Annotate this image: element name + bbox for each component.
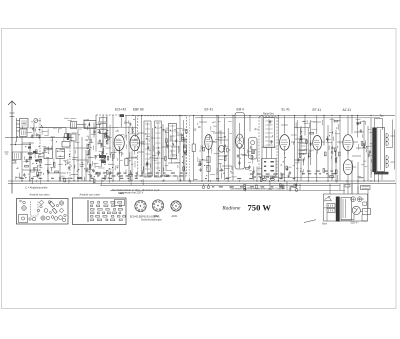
svg-text:Sockelschaltungen: Sockelschaltungen xyxy=(141,218,163,221)
antenna coil box L2a xyxy=(20,119,29,129)
wire HT top bus xyxy=(125,115,395,117)
tube V3 EF41 xyxy=(205,135,213,150)
wiring mesh AF section xyxy=(248,150,251,152)
terminal lugs TA xyxy=(202,186,205,189)
fuse F1 xyxy=(351,197,356,202)
wiring mesh mixer section xyxy=(99,150,103,152)
wiring mesh detector section xyxy=(200,146,202,150)
coupling boxes row xyxy=(65,134,71,138)
small components below bus xyxy=(244,187,246,191)
ratio det shield box (dashed) xyxy=(259,117,277,178)
far-right terminal box xyxy=(361,185,371,189)
svg-text:EF 41: EF 41 xyxy=(205,107,214,111)
tuning eye EM4 xyxy=(236,134,244,148)
transformer winding xyxy=(377,128,385,172)
RC cluster input left xyxy=(26,159,28,163)
small rect near bus right xyxy=(345,184,350,187)
band switch S1a xyxy=(39,118,41,180)
wire can to table xyxy=(262,147,277,158)
chassis bus 2 xyxy=(8,183,396,185)
coupling network mid xyxy=(310,142,312,146)
output stage cluster xyxy=(331,150,333,154)
secondary winding frame xyxy=(341,198,352,221)
wire V5 leads xyxy=(281,116,295,182)
tube V1 ECH42 xyxy=(114,135,124,151)
wire detector horizontals xyxy=(213,133,232,166)
wire right horizontals xyxy=(352,132,368,156)
wire V3 anode xyxy=(199,116,217,182)
rectifier cluster xyxy=(365,141,367,146)
padder box C5 xyxy=(62,142,70,148)
tube V2 EBF80 xyxy=(130,135,140,151)
band switch S1b xyxy=(69,145,71,183)
svg-text:EL 41: EL 41 xyxy=(282,107,290,111)
ratio det transformer can xyxy=(264,118,275,148)
decoupling cap C9 xyxy=(128,170,133,181)
svg-text:Skala: Skala xyxy=(118,192,125,195)
values text row IF xyxy=(95,173,98,174)
IF transformer Fi1 can xyxy=(144,121,151,177)
output transformer core xyxy=(372,128,376,173)
svg-text:0,1: 0,1 xyxy=(182,129,186,132)
coupling group mid-right xyxy=(300,139,306,154)
terminal oval b xyxy=(271,178,275,180)
bottom row comps left xyxy=(65,164,66,165)
wire long AVC line xyxy=(30,127,66,129)
antenna coil box L2b xyxy=(20,129,28,137)
detector cluster xyxy=(218,163,221,165)
terminal lug right xyxy=(295,189,298,192)
svg-text:AZ41: AZ41 xyxy=(172,215,179,218)
mains transformer core xyxy=(336,197,340,222)
wiring mesh output section xyxy=(333,137,335,141)
svg-text:EF 41: EF 41 xyxy=(313,108,322,112)
wire PSU bottom xyxy=(324,208,354,221)
svg-text:ECH 42: ECH 42 xyxy=(115,107,126,111)
fuse F2 xyxy=(357,197,362,202)
wire long line above bus right xyxy=(270,177,335,179)
svg-text:Radione: Radione xyxy=(221,206,241,212)
wiring mesh input section xyxy=(33,167,37,169)
tube V5 EL41 xyxy=(280,135,290,151)
svg-text:750 W: 750 W xyxy=(248,202,272,212)
values text row output stage xyxy=(300,171,302,172)
V2 grid components xyxy=(132,130,134,134)
oscillator padder stack xyxy=(100,118,107,123)
switch contact cluster xyxy=(39,129,40,130)
AF shield 2 (rounded) xyxy=(249,138,258,160)
IF coil can 3 xyxy=(169,124,177,159)
PSU small box right xyxy=(363,202,367,205)
svg-text:Ratio-Det.: Ratio-Det. xyxy=(263,112,275,115)
bottom values text row xyxy=(20,178,24,179)
wiring mesh IF right cluster xyxy=(181,133,182,134)
wire V6 leads xyxy=(313,116,325,182)
oscillator coil box L5 xyxy=(84,121,96,129)
pointer line xyxy=(304,220,316,223)
wiring mesh IF section xyxy=(101,177,108,179)
svg-text:220 V~: 220 V~ xyxy=(351,221,360,225)
screen resistor R7 xyxy=(125,159,128,166)
svg-text:Netz: Netz xyxy=(322,223,328,226)
wire V1 top xyxy=(103,115,122,181)
transformer terminal bar xyxy=(374,172,389,175)
junction blob xyxy=(67,134,69,141)
wire junction row 144.5 xyxy=(10,144,31,146)
wire second top bus xyxy=(195,117,380,119)
V5 lower cluster xyxy=(288,174,290,178)
svg-text:Ton: Ton xyxy=(380,113,385,117)
wire grid-cap dashed lead xyxy=(96,114,119,116)
speaker jack box xyxy=(363,209,371,215)
tube socket diagram 1 xyxy=(135,200,146,211)
AF shield contents xyxy=(251,141,255,145)
IF transformer Fi2 can xyxy=(155,121,162,177)
tube V8 rectifier xyxy=(343,160,352,175)
wire IF box verticals xyxy=(142,116,184,182)
chassis top-view diagram xyxy=(17,199,69,225)
measurement table box xyxy=(262,159,277,177)
grid resistor R10 xyxy=(183,145,186,152)
wire ratio det drop xyxy=(265,116,279,182)
wire PSU drops from bus xyxy=(330,184,358,194)
chassis bus 3 partial xyxy=(100,185,340,187)
wire V1 anode up xyxy=(120,116,130,182)
cluster IF right xyxy=(184,151,186,155)
wire out verticals xyxy=(324,116,340,182)
mains primary winding xyxy=(327,204,335,208)
wiring mesh EL41 section xyxy=(300,150,305,152)
wiring mesh rectifier section xyxy=(357,177,363,179)
cluster inside IF box xyxy=(165,131,166,132)
cathode network V1 xyxy=(104,164,105,165)
wire AF verticals xyxy=(250,116,262,182)
wire mid horizontals xyxy=(294,128,310,160)
RC cluster input mid xyxy=(66,162,70,164)
bottom row comps mid xyxy=(189,179,190,180)
AGC dashed line xyxy=(188,116,190,181)
speaker field coil lower xyxy=(386,156,389,168)
tube V7 AZ41 xyxy=(343,135,353,151)
svg-text:C = Abgleichpunkte: C = Abgleichpunkte xyxy=(25,185,48,189)
EM4 shield (rounded) xyxy=(235,113,245,170)
switch contact blobs xyxy=(28,147,31,149)
grid cap connector V1 xyxy=(120,114,125,117)
wire left horizontals xyxy=(22,138,88,174)
svg-text:Gemessen mit Röhrenvoltmeter g: Gemessen mit Röhrenvoltmeter gegen Chass… xyxy=(230,187,285,191)
tone row boxes xyxy=(71,122,77,129)
cathode chain V3 xyxy=(208,149,210,181)
small comps between buses xyxy=(280,184,282,188)
IF shield box (dashed) xyxy=(138,116,187,176)
speaker field coil upper xyxy=(386,134,389,146)
wiring mesh V1-IF gap xyxy=(105,147,111,149)
osc trimmer chain xyxy=(93,123,95,138)
values text ratio bottom xyxy=(250,174,253,175)
anode resistor R11 xyxy=(192,144,195,152)
wire detector verticals xyxy=(218,116,233,182)
terminal oval a xyxy=(263,178,267,180)
junction dots top bus xyxy=(132,115,133,116)
svg-text:AZ 41: AZ 41 xyxy=(343,108,352,112)
mains switch S2 xyxy=(324,196,332,201)
EM4 internal marks xyxy=(240,158,241,159)
earth terminal E xyxy=(5,138,17,164)
svg-text:Ansicht von oben: Ansicht von oben xyxy=(30,192,50,196)
RF coil box L3 xyxy=(44,149,53,159)
svg-text:Ansicht von unten: Ansicht von unten xyxy=(80,192,101,196)
dense cluster oscillator xyxy=(89,165,91,169)
junction dots bottom bus xyxy=(21,180,22,181)
wire V7 V8 leads xyxy=(337,116,358,195)
dial lamp La xyxy=(352,206,360,214)
wire osc box leads xyxy=(77,115,101,182)
wire transformer top leads xyxy=(375,119,393,183)
wire IF box horizontals xyxy=(138,130,184,163)
trimmer capacitor C1 xyxy=(34,119,38,123)
bottom row comps right xyxy=(245,168,249,170)
power supply enclosure xyxy=(324,194,368,221)
wire input junction row xyxy=(12,128,70,138)
tube socket diagram 2 xyxy=(152,200,163,211)
chassis bottom-view diagram xyxy=(73,198,127,225)
tube V6 EF41 xyxy=(313,136,322,151)
bottom values text right xyxy=(205,178,207,179)
wire mid verticals xyxy=(295,116,311,182)
antenna series coil L1 xyxy=(17,118,21,142)
chassis bus 1 xyxy=(8,180,395,182)
wiring mesh IF box interior xyxy=(165,132,168,134)
bus 4 partial xyxy=(110,189,345,191)
input coil sub-box xyxy=(13,152,22,160)
RF coil box L4 xyxy=(56,149,65,159)
antenna A xyxy=(8,101,16,194)
wire right verticals xyxy=(352,116,371,195)
tube socket diagram 3 xyxy=(171,201,181,211)
svg-text:EBF 80: EBF 80 xyxy=(133,107,144,111)
grid capacitor C11 xyxy=(183,140,187,142)
detector oval C15 xyxy=(219,145,225,152)
wire left verticals xyxy=(22,123,86,182)
wire V2 leads xyxy=(126,116,145,182)
values text below bus right xyxy=(212,186,214,187)
svg-text:EM 4: EM 4 xyxy=(237,107,245,111)
osc grid components xyxy=(107,135,108,136)
decoupling network EF41 xyxy=(200,150,201,151)
wire jack leads xyxy=(358,190,368,222)
